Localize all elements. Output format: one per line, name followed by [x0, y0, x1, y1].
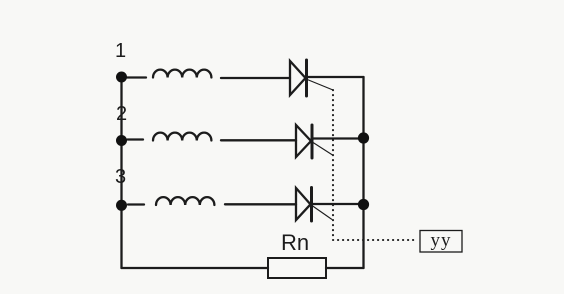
- svg-text:2: 2: [116, 103, 127, 125]
- svg-text:Rn: Rn: [281, 230, 309, 255]
- svg-text:1: 1: [115, 40, 126, 62]
- svg-text:3: 3: [115, 166, 126, 188]
- svg-text:уу: уу: [431, 230, 452, 251]
